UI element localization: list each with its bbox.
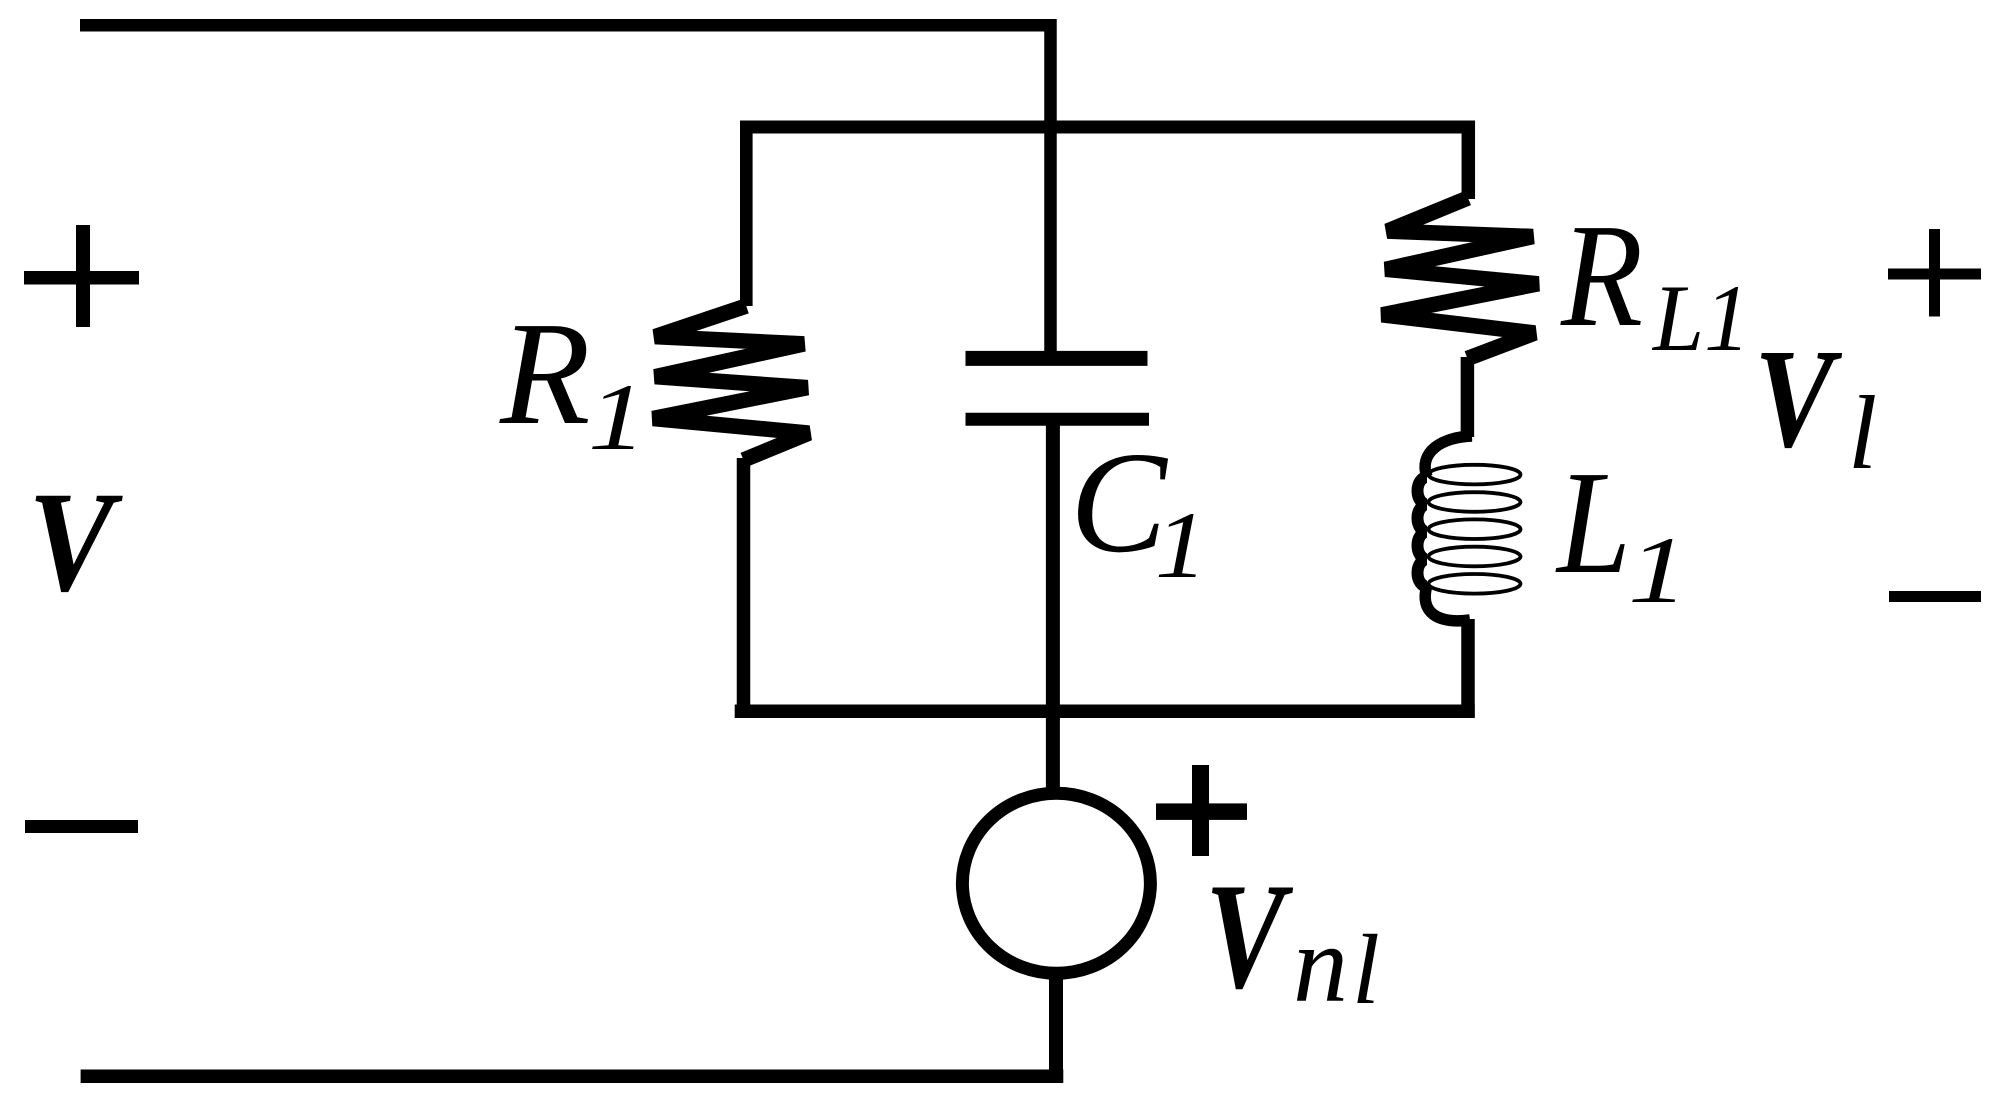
svg-text:l: l [1848, 374, 1877, 491]
svg-text:L1: L1 [1651, 265, 1750, 371]
svg-text:V: V [1205, 852, 1293, 1020]
capacitor C1 bottom plate [966, 413, 1150, 426]
wire left branch bottom [737, 458, 751, 718]
wire right branch bottom [1461, 619, 1475, 718]
wire below source [1049, 972, 1063, 1083]
svg-text:1: 1 [1628, 517, 1688, 623]
inductor L1 [1418, 436, 1521, 621]
svg-text:l: l [1352, 914, 1380, 1025]
capacitor C1 top plate [966, 351, 1148, 366]
resistor R1 [653, 306, 809, 460]
wire inner bottom rail [735, 704, 1475, 718]
wire inner top rail [741, 121, 1475, 134]
resistor RL1 [1382, 198, 1539, 359]
svg-text:L: L [1555, 441, 1631, 605]
svg-text:R: R [1560, 194, 1643, 358]
wire center below capacitor to source [1046, 419, 1060, 788]
minus sign right [1889, 591, 1981, 602]
plus sign at source [1156, 765, 1247, 856]
plus sign right [1888, 229, 1981, 317]
wire top rail with corner down to capacitor [80, 25, 1051, 358]
svg-text:1: 1 [1155, 492, 1207, 598]
wire bottom rail [81, 1070, 1064, 1084]
plus sign left [24, 225, 139, 327]
wire left branch top [740, 121, 753, 307]
svg-text:1: 1 [588, 364, 646, 470]
voltage source Vnl circle [962, 793, 1150, 973]
minus sign left [25, 820, 138, 833]
svg-text:V: V [28, 463, 123, 622]
svg-text:V: V [1754, 319, 1843, 477]
svg-text:R: R [499, 292, 590, 456]
wire right branch top [1462, 121, 1476, 200]
svg-text:n: n [1293, 903, 1348, 1025]
wire between RL1 and L1 [1461, 357, 1475, 437]
